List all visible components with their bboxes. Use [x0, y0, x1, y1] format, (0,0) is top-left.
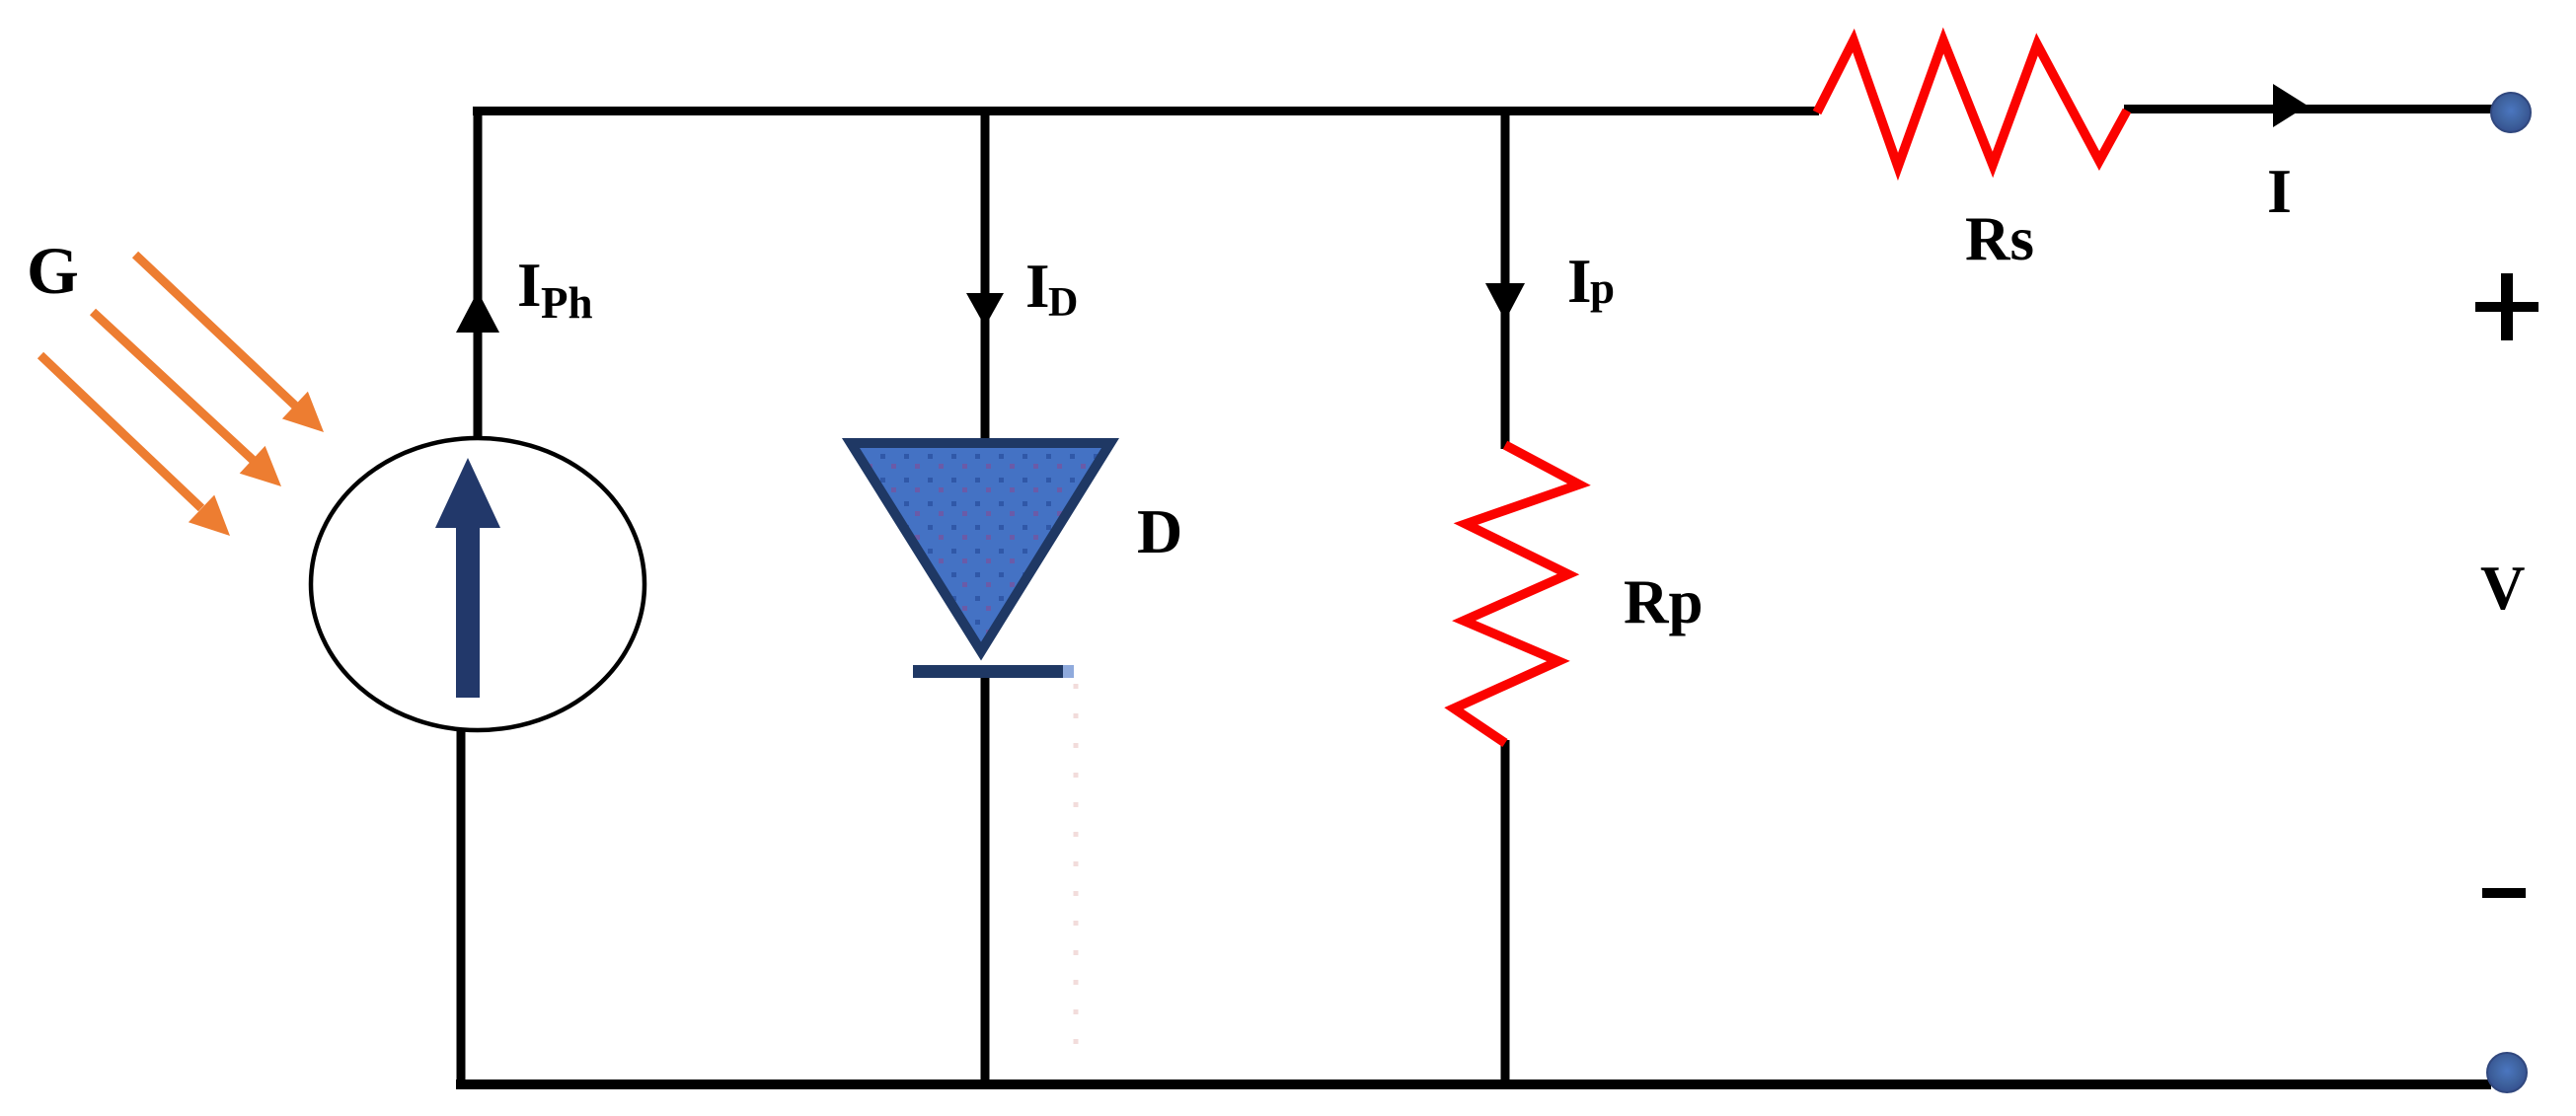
node positive terminal (blue dot) — [2491, 93, 2531, 132]
wire left vertical upper (source top to top rail) — [474, 107, 483, 440]
svg-text:D: D — [1137, 496, 1182, 566]
svg-text:I: I — [1025, 252, 1050, 321]
wire bottom horizontal rail — [456, 1079, 2491, 1089]
svg-text:p: p — [1590, 263, 1615, 313]
arrowhead Ip (current down Rp branch) — [1485, 283, 1525, 321]
svg-text:G: G — [27, 233, 79, 308]
node negative terminal (blue dot) — [2487, 1053, 2527, 1092]
wire diode branch upper — [981, 111, 990, 443]
wire Rp branch upper — [1501, 111, 1510, 449]
arrowhead I (output current on top wire) — [2273, 84, 2308, 127]
diode cathode bar light tip — [1063, 665, 1074, 678]
svg-text:Rp: Rp — [1624, 567, 1704, 636]
svg-text:D: D — [1048, 280, 1078, 326]
current source internal arrow — [435, 458, 500, 698]
svg-text:I: I — [1567, 247, 1592, 316]
svg-text:Rs: Rs — [1965, 204, 2034, 273]
arrowhead IPh (current up into top rail) — [456, 291, 499, 333]
wire top horizontal (left section, node between source, diode, Rp and Rs) — [473, 107, 1819, 115]
faint dotted guide line right of diode — [1074, 684, 1079, 1049]
current source U1 (photocurrent circle) — [311, 438, 644, 730]
resistor Rp zigzag — [1454, 445, 1579, 743]
label + (positive polarity) — [2475, 273, 2538, 340]
wire left vertical lower (source bottom to bottom rail) — [457, 728, 466, 1087]
irradiance arrow 2 — [93, 312, 281, 486]
resistor Rs zigzag — [1817, 40, 2127, 167]
svg-text:Ph: Ph — [541, 278, 593, 328]
irradiance arrow 3 — [40, 355, 230, 536]
faint dotted guide line inside source circle — [426, 555, 431, 701]
diode cathode bar — [913, 665, 1063, 678]
label ID — [1025, 252, 1078, 326]
svg-text:I: I — [2267, 156, 2292, 226]
wire diode branch lower — [981, 675, 990, 1081]
svg-text:I: I — [517, 251, 542, 320]
label - (negative polarity) — [2482, 888, 2526, 898]
wire Rp branch lower — [1501, 740, 1510, 1081]
label Ip — [1567, 247, 1615, 316]
wire top horizontal (Rs to positive terminal) — [2124, 105, 2499, 113]
arrowhead ID (current down diode branch) — [966, 293, 1004, 327]
label IPh — [517, 251, 593, 328]
diode D triangle — [851, 443, 1110, 651]
svg-text:V: V — [2480, 554, 2526, 623]
irradiance arrow 1 — [135, 255, 324, 432]
